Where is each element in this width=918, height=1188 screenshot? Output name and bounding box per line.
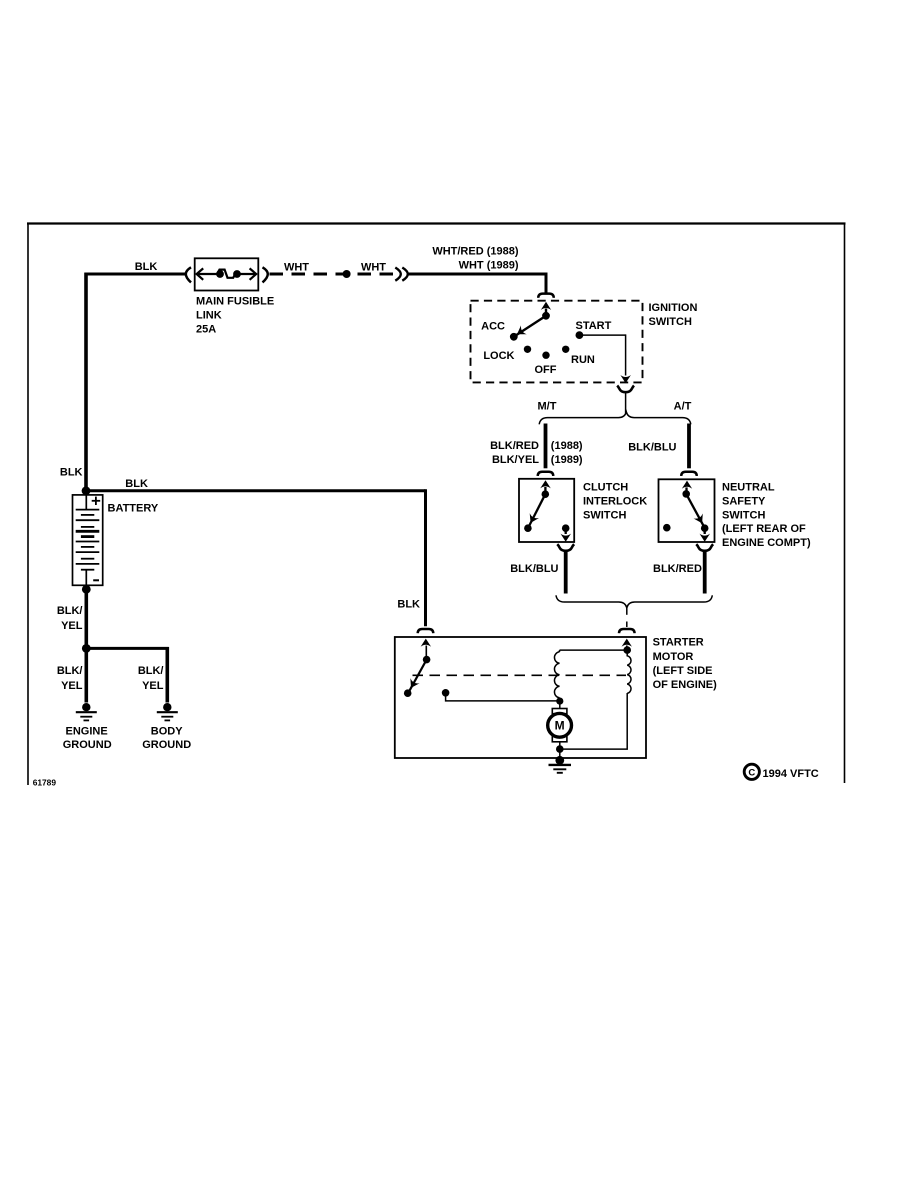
wire neutral safety output BLK/RED (703, 550, 707, 594)
neutral safety switch pivot dot (682, 490, 690, 498)
svg-text:C: C (748, 768, 755, 779)
wire M/T branch BLK/RED-BLK/YEL (544, 424, 548, 469)
svg-text:SAFETY: SAFETY (722, 496, 766, 508)
hold-in winding coil (627, 650, 631, 693)
neutral safety switch output contact dot (701, 524, 709, 532)
border frame left (27, 223, 29, 786)
contact dot OFF (542, 352, 549, 359)
svg-text:IGNITION: IGNITION (649, 302, 698, 314)
border frame right (844, 223, 846, 784)
junction dot on WHT wire (343, 270, 351, 278)
junction dot ground split (82, 644, 91, 653)
motor top brush terminal (552, 709, 567, 714)
svg-text:BLK/BLU: BLK/BLU (510, 563, 558, 575)
wire BLK horizontal to fusible link (85, 273, 187, 276)
fuse element node dot left (216, 270, 224, 278)
svg-text:STARTER: STARTER (653, 637, 704, 649)
connector female below ignition switch (617, 386, 634, 393)
wire clutch output BLK/BLU (564, 550, 568, 594)
battery positive stub (85, 495, 87, 510)
svg-text:A/T: A/T (674, 400, 692, 412)
svg-text:(LEFT SIDE: (LEFT SIDE (653, 665, 713, 677)
svg-text:OF ENGINE): OF ENGINE) (653, 679, 718, 691)
neutral safety switch output stem and male arrow down (704, 528, 706, 534)
starter solenoid switch pivot dot (423, 656, 431, 664)
clutch switch output stem and male arrow down (565, 528, 567, 534)
clutch switch input male arrow (540, 480, 551, 488)
connector female at neutral safety switch input (681, 472, 697, 476)
engine ground symbol (82, 703, 90, 711)
battery box (73, 495, 103, 585)
svg-text:SWITCH: SWITCH (583, 510, 626, 522)
inline connector pair on WHT wire (395, 268, 401, 281)
ignition switch dashed box (471, 301, 643, 383)
svg-text:61789: 61789 (33, 778, 57, 788)
svg-text:WHT: WHT (361, 261, 386, 273)
junction dot starter windings (623, 646, 631, 654)
svg-text:BLK/RED: BLK/RED (653, 563, 702, 575)
svg-text:BLK: BLK (60, 467, 83, 479)
dashed solenoid linkage line (413, 674, 627, 676)
contact dot ACC (510, 333, 518, 341)
svg-text:BLK/: BLK/ (138, 665, 164, 677)
ignition switch wiper arm to ACC (515, 316, 547, 336)
border frame top (27, 222, 846, 224)
wire hold-in winding to ground node (560, 693, 627, 749)
body ground symbol (163, 703, 171, 711)
wire coil to motor node (559, 698, 561, 702)
svg-text:BLK/RED: BLK/RED (490, 440, 539, 452)
wire BLK battery to starter motor (85, 489, 426, 492)
battery negative stub (85, 570, 87, 586)
starter solenoid contact dot (404, 689, 412, 697)
neutral safety switch box (659, 479, 715, 542)
svg-text:M: M (555, 719, 565, 733)
connector female at fusible link right (263, 267, 268, 282)
connector female below clutch switch (557, 544, 574, 551)
wire A/T branch BLK/BLU (687, 424, 691, 469)
junction dot motor ground (556, 745, 564, 753)
ignition switch input male arrow (541, 302, 551, 310)
ignition switch rotor contact dot (542, 312, 550, 320)
svg-text:BLK: BLK (125, 478, 148, 490)
fuse element left arrow (male pin) (197, 268, 204, 279)
svg-text:GROUND: GROUND (142, 739, 191, 751)
starter right input male arrow (622, 639, 633, 647)
connector female below neutral safety switch (696, 544, 713, 551)
clutch switch lower contact dot (524, 524, 532, 532)
svg-text:(LEFT REAR OF: (LEFT REAR OF (722, 523, 806, 535)
svg-text:1994 VFTC: 1994 VFTC (763, 768, 819, 780)
neutral safety switch wiper arrowhead (694, 514, 703, 524)
connector female at ignition switch input (538, 294, 554, 298)
svg-text:SWITCH: SWITCH (649, 316, 692, 328)
svg-text:25A: 25A (196, 324, 216, 336)
connector female at starter motor left input (418, 629, 434, 633)
fuse element wavy link (218, 270, 236, 278)
svg-text:CLUTCH: CLUTCH (583, 482, 628, 494)
svg-text:LOCK: LOCK (483, 350, 514, 362)
svg-text:(1988): (1988) (551, 440, 583, 452)
ignition switch wiper arrowhead (517, 325, 527, 334)
svg-text:ACC: ACC (481, 321, 505, 333)
svg-text:WHT: WHT (284, 261, 309, 273)
battery plus sign (92, 500, 101, 502)
svg-text:YEL: YEL (142, 680, 164, 692)
pull-in winding coil (554, 652, 559, 698)
svg-text:START: START (576, 320, 612, 332)
motor M circle (548, 713, 572, 737)
wire WHT/RED solid to ignition switch (407, 273, 548, 276)
connector female at clutch interlock switch input (538, 472, 554, 476)
contact dot LOCK (524, 346, 531, 353)
fuse element node dot right (233, 270, 241, 278)
brace splitting to M/T and A/T (539, 412, 691, 425)
fusible link box (195, 258, 259, 290)
connector female at starter motor right input (619, 629, 635, 633)
contact dot RUN (562, 346, 569, 353)
wire to engine ground (85, 648, 89, 702)
svg-text:M/T: M/T (538, 400, 557, 412)
svg-text:MAIN FUSIBLE: MAIN FUSIBLE (196, 296, 274, 308)
clutch switch pivot dot (542, 490, 550, 498)
svg-text:BLK: BLK (135, 261, 158, 273)
junction dot battery positive (82, 486, 91, 495)
wire to starter ground (559, 749, 561, 758)
wire winding top link (560, 649, 628, 651)
contact dot START (576, 331, 584, 339)
svg-text:ENGINE: ENGINE (66, 725, 108, 737)
battery minus sign (93, 579, 99, 581)
svg-text:YEL: YEL (61, 620, 83, 632)
wire solenoid output to motor (446, 693, 560, 701)
svg-text:BLK: BLK (397, 599, 420, 611)
wire WHT dashed segment (270, 273, 396, 276)
svg-text:SWITCH: SWITCH (722, 510, 765, 522)
starter solenoid switch arrowhead (410, 678, 419, 688)
starter ground symbol (555, 756, 564, 765)
junction dot battery negative (82, 585, 91, 594)
node dot coil bottom (556, 698, 563, 705)
svg-text:BLK/YEL: BLK/YEL (492, 454, 539, 466)
starter solenoid switch arm (408, 660, 426, 693)
clutch switch wiper arm (528, 494, 545, 527)
svg-text:NEUTRAL: NEUTRAL (722, 482, 775, 494)
svg-text:INTERLOCK: INTERLOCK (583, 496, 647, 508)
svg-text:GROUND: GROUND (63, 739, 112, 751)
neutral safety switch wiper arm (686, 494, 704, 528)
clutch switch output contact dot (562, 524, 570, 532)
battery cell plates (76, 509, 100, 511)
wire motor node to armature (559, 701, 561, 708)
wire START contact to box exit (579, 334, 625, 336)
svg-text:OFF: OFF (535, 364, 557, 376)
svg-text:BODY: BODY (151, 725, 183, 737)
wire battery negative BLK/YEL (85, 588, 89, 649)
svg-text:LINK: LINK (196, 310, 222, 322)
wire motor to ground node (559, 742, 561, 749)
svg-text:BLK/: BLK/ (57, 665, 83, 677)
wire ignition exit to M/T-A/T brace (625, 391, 627, 414)
clutch switch wiper arrowhead (530, 513, 539, 523)
neutral safety switch unused contact dot (663, 524, 671, 532)
ignition switch exit male arrow down (620, 375, 631, 383)
copyright symbol (744, 764, 759, 779)
fuse element right arrow (male pin) (236, 273, 255, 275)
svg-text:WHT (1989): WHT (1989) (459, 260, 519, 272)
svg-text:(1989): (1989) (551, 454, 583, 466)
wire battery positive vertical BLK (84, 273, 88, 492)
brace merging M/T and A/T paths (556, 595, 712, 608)
starter motor box (395, 637, 646, 758)
svg-text:YEL: YEL (61, 680, 83, 692)
svg-text:BLK/BLU: BLK/BLU (628, 441, 676, 453)
starter left input male arrow (421, 639, 432, 647)
svg-text:ENGINE COMPT): ENGINE COMPT) (722, 537, 811, 549)
svg-text:BATTERY: BATTERY (108, 502, 159, 514)
clutch interlock switch box (519, 479, 574, 542)
connector female at fusible link left (186, 267, 191, 282)
svg-text:RUN: RUN (571, 354, 595, 366)
svg-text:WHT/RED (1988): WHT/RED (1988) (432, 246, 519, 258)
motor bottom brush terminal (552, 737, 567, 742)
wire brace to starter connector (626, 607, 628, 615)
svg-text:MOTOR: MOTOR (653, 651, 694, 663)
wire to body ground (86, 647, 169, 650)
neutral safety switch input male arrow (682, 481, 692, 489)
starter solenoid output dot (442, 689, 450, 697)
svg-text:BLK/: BLK/ (57, 605, 83, 617)
